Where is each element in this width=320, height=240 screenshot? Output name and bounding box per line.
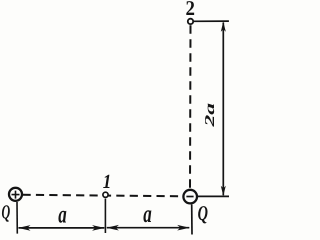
dimension arrow a (left span) xyxy=(19,227,105,229)
charge +Q xyxy=(9,188,22,201)
svg-text:Q: Q xyxy=(198,201,208,225)
svg-text:Q: Q xyxy=(2,201,11,223)
svg-text:a: a xyxy=(143,201,152,228)
wire top extension line from node 2 to right xyxy=(194,20,229,22)
dimension arrow 2a vertical line xyxy=(222,23,224,196)
wire extension below -Q xyxy=(191,205,193,235)
svg-text:2: 2 xyxy=(186,0,195,20)
dimension arrow a (right span) xyxy=(107,227,190,229)
wire extension below node 1 xyxy=(104,199,106,233)
wire right extension line from -Q to right xyxy=(197,195,229,197)
charge -Q xyxy=(183,190,197,204)
wire extension below +Q xyxy=(16,202,18,234)
svg-text:a: a xyxy=(58,202,67,229)
wire vertical dashed line from node 2 down to -Q xyxy=(189,25,192,189)
node 1 xyxy=(103,192,108,197)
svg-text:2a: 2a xyxy=(202,103,217,129)
wire dashed line from +Q to -Q through node 1 xyxy=(23,195,183,197)
node 2 xyxy=(188,19,193,24)
svg-text:1: 1 xyxy=(103,171,112,193)
